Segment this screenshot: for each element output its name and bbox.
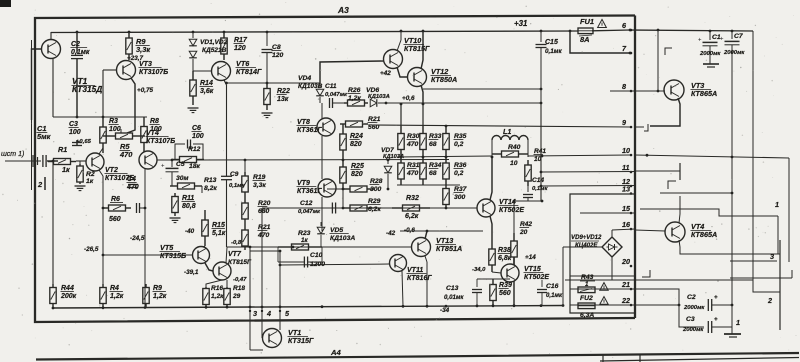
wire VT1 base loop (32, 49, 42, 120)
diode VD7 (384, 160, 392, 189)
label R2 (86, 171, 95, 185)
svg-text:R15: R15 (212, 222, 225, 229)
label R9b (153, 285, 167, 300)
node rail-R17 (223, 31, 226, 34)
svg-text:R41: R41 (534, 148, 546, 155)
label R40 (508, 144, 521, 167)
diode VD5 (317, 222, 325, 247)
wire base line to VT5 (103, 254, 193, 256)
svg-text:R42: R42 (520, 221, 532, 228)
node y208-343 (342, 207, 345, 210)
svg-text:3: 3 (253, 309, 257, 318)
resistor R37 (443, 185, 449, 208)
node y247-293 (292, 246, 295, 249)
resistor R23 (278, 244, 322, 250)
resistor R12 (172, 157, 204, 163)
wire y83 corner up (320, 61, 384, 83)
label VT10 (404, 36, 430, 53)
capacitor C4b series (137, 203, 146, 213)
svg-text:2000мк: 2000мк (699, 51, 721, 57)
label R28 (370, 178, 383, 193)
wire C16 col (562, 247, 564, 306)
svg-text:1,2к: 1,2к (348, 95, 361, 102)
svg-text:R19: R19 (253, 174, 266, 181)
svg-text:А3: А3 (337, 5, 349, 15)
ground below R11 (170, 218, 181, 223)
node bottom-206 (205, 306, 208, 309)
node rail-C5 (171, 159, 174, 162)
wire VT4 ext emitter (679, 240, 780, 254)
wire +supply rail (51, 30, 753, 33)
svg-text:470: 470 (406, 170, 419, 177)
resistor R20 (242, 196, 248, 226)
label L1 (503, 127, 511, 136)
svg-text:R8: R8 (150, 118, 159, 125)
svg-text:R14: R14 (200, 80, 213, 87)
node y247-250 (249, 246, 252, 249)
wire y247 line (227, 246, 412, 248)
svg-text:3: 3 (770, 252, 774, 261)
svg-text:820: 820 (350, 141, 362, 148)
wire VT2 emitter (99, 148, 103, 154)
label R11 (182, 195, 196, 210)
svg-text:С6: С6 (192, 125, 201, 132)
transistor VT7 (213, 262, 231, 280)
node bottom-427 (426, 305, 429, 308)
wire R2col down (102, 190, 104, 255)
hook pin20 (642, 270, 650, 277)
svg-text:FU1: FU1 (580, 17, 594, 26)
svg-text:R29: R29 (368, 198, 381, 205)
svg-text:-24,5: -24,5 (130, 235, 145, 242)
capacitor C14 (523, 186, 533, 201)
resistor R8 (141, 117, 147, 152)
svg-text:С16: С16 (546, 283, 559, 290)
label VD6 (366, 87, 390, 100)
wire y156 to border (528, 155, 630, 156)
wire VT3 emitter (127, 78, 135, 133)
label -40 (185, 228, 195, 235)
svg-text:R3: R3 (109, 118, 118, 125)
svg-text:КТ3107Б: КТ3107Б (146, 138, 175, 145)
resistor R18 (224, 287, 230, 306)
wire y126 line (368, 125, 630, 127)
svg-text:С9: С9 (230, 171, 239, 178)
resistor R5 trimmer (103, 129, 145, 139)
wire y193 line (660, 192, 732, 194)
node rail-VD1 (192, 31, 195, 34)
label R24 (350, 133, 363, 148)
resistor R26 (344, 100, 368, 106)
capacitor C6 (175, 140, 203, 160)
label VT14 (499, 199, 525, 214)
svg-text:1,2к: 1,2к (110, 293, 124, 300)
label C5 (176, 161, 189, 182)
wire VT1 emitter (52, 58, 54, 117)
svg-text:R4: R4 (110, 285, 119, 292)
wire pin10 ext (635, 155, 789, 158)
resistor R21 (242, 226, 248, 250)
label C14 (532, 177, 549, 192)
svg-text:5мк: 5мк (37, 132, 52, 141)
svg-text:КТ3107Б: КТ3107Б (139, 69, 168, 76)
wire y185 line (397, 184, 460, 186)
label VT13 (436, 236, 463, 253)
wire pin5 col (279, 251, 281, 330)
node rail-C9col (244, 159, 247, 162)
node VD7 bottom (387, 188, 390, 191)
node input-R44 (52, 160, 55, 163)
wire pin16-VT4 base (635, 230, 665, 231)
svg-text:20: 20 (519, 229, 528, 236)
svg-text:R23: R23 (298, 230, 311, 237)
wire pin16 line (612, 229, 635, 230)
capacitor C2 ext (708, 294, 732, 311)
label input (шст 1) (1, 151, 24, 158)
svg-text:+42: +42 (380, 70, 391, 77)
label -0,47 (233, 277, 247, 283)
pin 22 (621, 296, 632, 306)
node bottom-227 (226, 306, 229, 309)
transistor VT14 (477, 199, 495, 217)
label C3 (69, 121, 81, 136)
wire pin21 ext (635, 289, 679, 305)
svg-text:VD9÷VD12: VD9÷VD12 (571, 234, 602, 241)
node y104-401 (400, 103, 403, 106)
label -24,5 (130, 235, 145, 242)
pin 6 (622, 21, 632, 31)
svg-text:VD6: VD6 (366, 87, 379, 94)
input contact at border (33, 155, 38, 167)
transistor VT4 ext (665, 222, 685, 242)
warning triangle near FU1 (598, 19, 607, 27)
wire R30 top stub (401, 104, 423, 126)
wire VT7 collector (226, 247, 227, 263)
label VT2 (105, 167, 135, 182)
svg-text:2000мк: 2000мк (723, 50, 745, 56)
transistor VT1 (42, 40, 61, 59)
resistor R40 (492, 148, 528, 160)
svg-text:+: + (698, 38, 702, 44)
resistor R1 (48, 159, 76, 165)
node bottom-103 (102, 306, 105, 309)
node R6 left (102, 207, 105, 210)
pin 16 (622, 220, 632, 230)
svg-text:0,047мк: 0,047мк (298, 209, 321, 215)
svg-text:6: 6 (622, 21, 627, 30)
node y208-446 (445, 207, 448, 210)
wire y201 line (514, 200, 543, 202)
resistor R33 (420, 126, 426, 157)
svg-text:С13: С13 (446, 285, 459, 292)
ground below R2 (75, 186, 86, 191)
label C10 (310, 252, 325, 268)
node y193-732 (731, 192, 734, 195)
svg-text:С10: С10 (310, 252, 323, 259)
wire x658 col (657, 30, 659, 91)
capacitor C2 (71, 32, 83, 117)
svg-text:68: 68 (429, 141, 437, 148)
label wire 1 (775, 200, 779, 209)
transistor VT3 ext (664, 80, 684, 100)
label C12 (298, 200, 321, 215)
node R3 top (102, 116, 105, 119)
capacitor C12 (332, 203, 335, 214)
label R9 (136, 37, 152, 54)
label R35 (454, 133, 467, 148)
label VD5 (330, 227, 356, 242)
node rail-C15 (540, 30, 543, 33)
svg-text:0,2: 0,2 (454, 170, 464, 177)
wire R16 top (206, 280, 222, 287)
node rail-C7cap (731, 30, 734, 33)
node VT5 base (102, 254, 105, 257)
wire VD2 to VT6 base (193, 64, 212, 71)
svg-text:300: 300 (454, 194, 466, 201)
svg-text:1к: 1к (301, 237, 309, 244)
resistor R15 (202, 210, 208, 247)
label VT12 (431, 67, 458, 84)
svg-text:100: 100 (192, 133, 204, 140)
svg-text:470: 470 (119, 150, 133, 159)
diode VD1 (189, 32, 197, 46)
capacitor C11 (320, 98, 344, 108)
label +23,7 (127, 55, 143, 62)
svg-text:8,2к: 8,2к (204, 185, 217, 192)
svg-text:R30: R30 (407, 133, 420, 140)
svg-text:0,1мк: 0,1мк (545, 48, 562, 55)
fuse FU2 (578, 303, 595, 309)
node R28-343 (342, 188, 345, 191)
label +31 (514, 19, 527, 28)
wire VT15 collector (513, 257, 515, 265)
node VT14c-157 (491, 156, 494, 159)
label VT6 (236, 59, 262, 76)
node bottom-514 (513, 304, 516, 307)
svg-text:R25: R25 (351, 163, 364, 170)
resistor R13 (170, 183, 202, 189)
wire pin9 stub (635, 126, 644, 128)
ground right (724, 334, 741, 337)
svg-text:560: 560 (109, 216, 121, 223)
svg-text:68: 68 (429, 170, 437, 177)
capacitor C15 (536, 31, 547, 103)
resistor R37b wire (446, 207, 477, 209)
svg-text:15: 15 (622, 204, 631, 213)
svg-text:R12: R12 (188, 146, 201, 153)
wire C3 right (731, 305, 733, 334)
label R17 (234, 37, 248, 52)
label R13 (204, 177, 217, 192)
transistor VT5 (193, 247, 210, 264)
node rail-VT12 (422, 30, 425, 33)
wire VT3 base (103, 70, 117, 117)
label VT7 (228, 251, 252, 266)
transistor VT6 (212, 61, 231, 81)
wire C3 loop (679, 305, 704, 327)
node rail-R9 (128, 31, 131, 34)
svg-text:R21: R21 (368, 116, 381, 123)
svg-text:шст 1): шст 1) (1, 151, 24, 158)
wire R16 R18 bottoms (205, 302, 207, 307)
resistor R25 (340, 160, 346, 190)
svg-text:VT7: VT7 (228, 251, 242, 258)
svg-text:R39: R39 (499, 282, 512, 289)
svg-text:10: 10 (510, 160, 518, 167)
label -42 (386, 230, 396, 237)
wire y261 line (730, 260, 777, 262)
capacitor C8 (262, 32, 273, 83)
board A3 inner border line (31, 40, 33, 190)
wire pin11 inside (541, 171, 635, 174)
label C1 ext (699, 34, 721, 57)
pin 10 (622, 146, 632, 156)
node rail-pin6 (629, 29, 632, 32)
svg-text:+: + (714, 316, 718, 323)
svg-text:VT15: VT15 (524, 266, 541, 273)
svg-text:0,01мк: 0,01мк (444, 294, 464, 301)
svg-text:470: 470 (406, 141, 419, 148)
svg-text:КТ815Г: КТ815Г (228, 259, 252, 266)
label VT8 (297, 119, 323, 134)
wire VT13 collector (425, 231, 427, 239)
svg-text:R11: R11 (182, 195, 194, 202)
label C2 ext (683, 294, 705, 311)
node C4b right (144, 207, 147, 210)
node rail-VD7 (387, 159, 390, 162)
label R42 (519, 221, 532, 236)
svg-text:КТ865А: КТ865А (691, 230, 717, 239)
svg-text:30м: 30м (176, 175, 189, 182)
svg-text:R21: R21 (258, 224, 271, 231)
resistor R38 (489, 242, 495, 272)
svg-text:29: 29 (232, 293, 241, 300)
svg-text:0,2: 0,2 (454, 141, 464, 148)
node R22 top (266, 82, 269, 85)
node bottom-541 (540, 304, 543, 307)
label R8 (150, 118, 162, 133)
wire pin21 line (570, 288, 635, 290)
board A3 label (337, 5, 349, 15)
resistor R32 (392, 205, 430, 211)
wire VT11 col down (402, 271, 403, 306)
wire VT15 base (492, 272, 501, 273)
wire y279 line (477, 278, 510, 280)
label R3 (109, 118, 121, 133)
svg-text:VD5: VD5 (330, 227, 343, 234)
resistor R9b (143, 284, 149, 307)
node bottom-446 (445, 305, 448, 308)
wire VT13 emitter col (425, 256, 427, 306)
resistor R4 (100, 255, 106, 307)
svg-text:С5: С5 (176, 161, 185, 168)
svg-text:0,1мк: 0,1мк (229, 183, 246, 189)
wire y231 line (400, 230, 483, 232)
ground below R22 (262, 113, 273, 118)
svg-text:КТ851А: КТ851А (436, 244, 462, 253)
svg-text:+14: +14 (525, 254, 536, 261)
node pin8 ext-658 (657, 29, 660, 93)
label VT11 (407, 267, 433, 282)
node bottom-477 (476, 305, 479, 308)
svg-text:13к: 13к (277, 96, 289, 103)
svg-text:С8: С8 (272, 44, 281, 51)
wire VT15 emitter (513, 281, 515, 306)
board A3 border (35, 16, 635, 323)
svg-text:КТ361Г: КТ361Г (297, 188, 322, 195)
transistor VT9 (318, 179, 336, 197)
label R41 (534, 148, 547, 163)
wire VT14 emitter (490, 216, 492, 242)
label R36 (454, 162, 467, 177)
svg-text:R1: R1 (58, 145, 67, 154)
wire bridge bottom (611, 257, 613, 280)
resistor R43 (578, 287, 595, 293)
wire pin3 a4 (250, 321, 263, 350)
capacitor C4 (128, 185, 138, 188)
pin 4 (261, 309, 271, 318)
wire y209 line (640, 209, 778, 216)
wire x780 col (779, 240, 781, 330)
svg-text:18к: 18к (189, 163, 201, 170)
board A4 second line (600, 358, 799, 362)
node rail-R25col (342, 159, 345, 162)
svg-text:FU2: FU2 (580, 295, 593, 302)
svg-text:+: + (720, 37, 724, 43)
label R29 (368, 198, 382, 213)
svg-text:4: 4 (266, 309, 271, 318)
capacitor C3 ext (708, 316, 732, 333)
wire VT7 emitter (226, 280, 228, 287)
svg-text:7: 7 (622, 44, 627, 53)
transistor VT11 (390, 255, 407, 272)
label C13 (444, 285, 464, 301)
board A4 top border (36, 353, 799, 360)
label +0,6 a (402, 95, 415, 102)
transistor VT15 (501, 264, 519, 282)
label R16 (211, 285, 224, 300)
wire y103 line (386, 102, 541, 104)
svg-text:1,2к: 1,2к (153, 293, 167, 300)
svg-text:VT2: VT2 (105, 167, 118, 174)
wire R25col to y208 (342, 190, 344, 208)
svg-text:22: 22 (621, 296, 630, 305)
resistor R6 (103, 205, 131, 211)
wire VT4col down (144, 190, 146, 306)
resistor R9 (126, 32, 132, 60)
resistor R17 (221, 32, 227, 60)
label VT3 (139, 61, 169, 76)
resistor R39 (490, 279, 496, 306)
svg-text:16: 16 (622, 220, 631, 229)
wire VT6 emitter down (224, 80, 227, 247)
label R6 (109, 196, 123, 223)
svg-text:R28: R28 (370, 178, 383, 185)
wire VT8-VT9 column (321, 103, 323, 231)
resistor R14 (190, 71, 196, 105)
node y104-423 (422, 103, 425, 106)
label R37 (454, 186, 468, 201)
svg-text:КТ865А: КТ865А (691, 89, 717, 98)
label R1 (58, 145, 70, 174)
label VT5 (160, 243, 187, 260)
label FU2 (580, 295, 593, 302)
label R4 (110, 285, 124, 300)
svg-text:R36: R36 (454, 162, 467, 169)
wire VT11 base line (279, 264, 389, 267)
wire pin8 inside (610, 90, 635, 92)
board A4 left box (603, 354, 640, 362)
